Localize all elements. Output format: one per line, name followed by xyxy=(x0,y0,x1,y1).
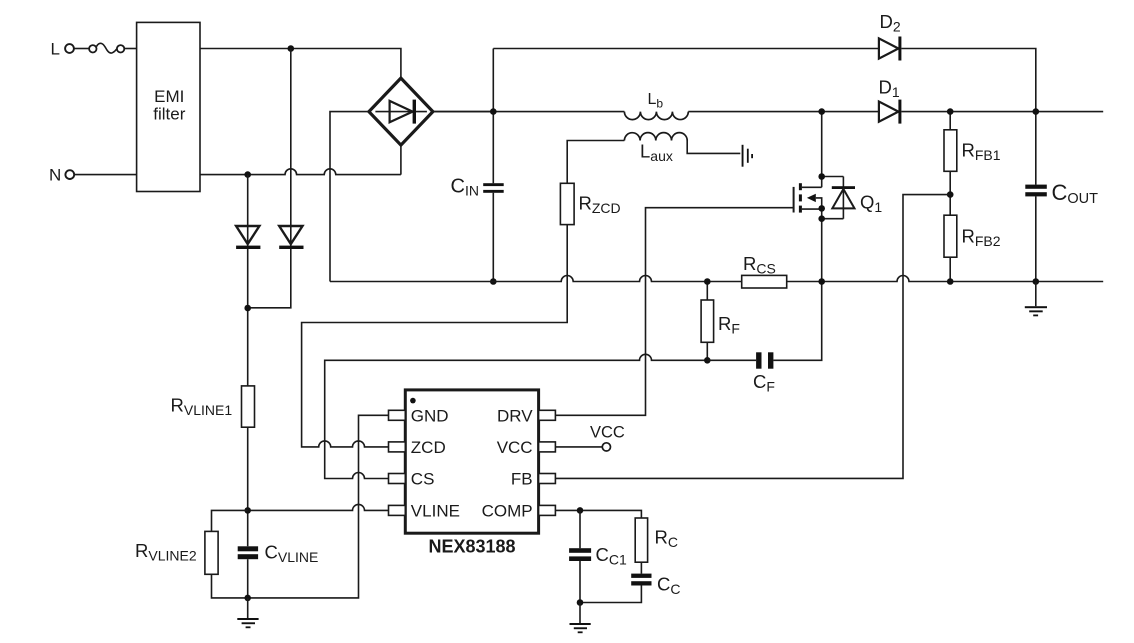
wire GND trace to main ground xyxy=(248,415,389,598)
pin stub COMP xyxy=(539,505,556,515)
diode D2 xyxy=(879,11,902,61)
wire bridge left corner to rail xyxy=(330,112,369,282)
wire fuse to EMI filter xyxy=(124,48,136,50)
pin stub VCC xyxy=(539,442,556,452)
svg-text:VCC: VCC xyxy=(590,423,625,441)
resistor RVLINE1 xyxy=(171,386,255,427)
pin stub VLINE xyxy=(389,505,406,515)
svg-text:RZCD: RZCD xyxy=(579,193,621,217)
svg-text:RF: RF xyxy=(718,313,740,337)
svg-text:RFB1: RFB1 xyxy=(962,140,1001,164)
junction comp ground node xyxy=(577,599,584,606)
wire N-line sense diode branch xyxy=(247,175,249,547)
svg-text:CC1: CC1 xyxy=(596,544,627,568)
junction Q1 source on rail xyxy=(818,278,825,285)
svg-text:CS: CS xyxy=(411,470,435,489)
wire return rail (hops at x567.2, x645.5, x903) xyxy=(330,276,1103,282)
junction sense diodes xyxy=(244,305,251,312)
junction on N line xyxy=(244,171,251,178)
svg-text:VCC: VCC xyxy=(497,438,533,457)
svg-text:L: L xyxy=(51,40,60,59)
wire L terminal to fuse xyxy=(74,48,89,50)
wire DRV to Q1 gate xyxy=(555,208,793,416)
wire CF right to source node xyxy=(773,282,821,361)
svg-text:RFB2: RFB2 xyxy=(962,226,1001,250)
svg-text:VLINE: VLINE xyxy=(411,501,460,520)
pin stub DRV xyxy=(539,410,556,420)
pin stub CS xyxy=(389,474,406,484)
junction RFB2 bottom xyxy=(947,278,954,285)
svg-text:Q1: Q1 xyxy=(860,192,882,216)
terminal VCC xyxy=(590,423,625,451)
svg-text:CIN: CIN xyxy=(451,176,479,199)
op-amp-ic U1 NEX83188 xyxy=(405,390,538,557)
svg-text:D2: D2 xyxy=(880,11,901,35)
wire bridge right corner to CIN node xyxy=(433,111,493,113)
svg-text:RVLINE2: RVLINE2 xyxy=(135,540,197,564)
svg-text:CF: CF xyxy=(753,371,775,395)
junction bottom VLINE node xyxy=(244,595,251,602)
resistor RCS xyxy=(742,253,787,288)
svg-text:N: N xyxy=(49,166,61,185)
svg-text:COUT: COUT xyxy=(1052,180,1099,207)
junction COUT top xyxy=(1033,108,1040,115)
inductor Laux xyxy=(624,133,687,164)
terminal N xyxy=(49,166,74,185)
wire N line from EMI to bridge bottom (hops at x290.8 and x330) xyxy=(200,145,401,175)
capacitor COUT xyxy=(1025,112,1098,282)
capacitor CIN xyxy=(451,112,504,282)
diode D1 xyxy=(879,77,902,124)
svg-text:CVLINE: CVLINE xyxy=(265,542,319,566)
wire Laux left lead to RZCD xyxy=(567,141,624,184)
svg-text:DRV: DRV xyxy=(497,406,533,425)
svg-text:Lb: Lb xyxy=(648,91,664,111)
wire main rectified line xyxy=(433,111,1103,113)
wire L-line sense diode branch xyxy=(248,49,291,308)
wire VLINE trace (hop at x358.5) xyxy=(248,504,389,510)
resistor RC xyxy=(635,518,678,562)
svg-text:D1: D1 xyxy=(879,77,900,101)
junction FB node xyxy=(947,191,954,198)
EMI filter block xyxy=(137,22,200,191)
ground (aux, right-pointing) xyxy=(742,145,753,167)
svg-text:FB: FB xyxy=(511,470,533,489)
junction RFB1 top xyxy=(947,108,954,115)
fuse F1 xyxy=(89,43,124,53)
pin stub GND xyxy=(389,410,406,420)
svg-text:RVLINE1: RVLINE1 xyxy=(171,395,233,419)
svg-text:EMI: EMI xyxy=(154,87,184,106)
junction COUT bottom xyxy=(1033,278,1040,285)
svg-text:GND: GND xyxy=(411,406,449,425)
capacitor CC xyxy=(580,562,681,602)
bridge rectifier BR1 xyxy=(369,78,433,145)
ground (output) xyxy=(1025,282,1047,317)
svg-text:NEX83188: NEX83188 xyxy=(428,537,515,557)
wire FB trace xyxy=(555,195,950,479)
terminal L xyxy=(51,40,74,59)
svg-text:ZCD: ZCD xyxy=(411,438,446,457)
resistor RF xyxy=(701,282,740,361)
junction Q1 drain on main line xyxy=(818,108,825,115)
inductor Lb xyxy=(624,91,688,120)
pin stub ZCD xyxy=(389,442,406,452)
svg-text:COMP: COMP xyxy=(482,501,533,520)
resistor RVLINE2 xyxy=(135,510,248,598)
pin stub FB xyxy=(539,474,556,484)
wire ZCD trace (hops at x324.7, x358.5) xyxy=(302,225,568,447)
ground (compensation) xyxy=(570,603,591,634)
wire N terminal to EMI filter xyxy=(74,174,137,176)
resistor RFB1 xyxy=(944,112,1001,195)
wire VCC pin xyxy=(555,446,602,448)
svg-text:filter: filter xyxy=(153,105,185,124)
resistor RFB2 xyxy=(944,195,1001,282)
junction RF top xyxy=(704,278,711,285)
wire CS trace from RF node (hop at x645.5 and x358.5) xyxy=(325,354,708,478)
junction CIN bottom xyxy=(490,278,497,285)
svg-text:Laux: Laux xyxy=(640,141,673,165)
junction node VLINE xyxy=(244,507,251,514)
capacitor CC1 xyxy=(569,510,627,602)
wire COMP node xyxy=(555,510,641,518)
resistor RZCD xyxy=(560,183,620,224)
capacitor CF xyxy=(707,352,775,394)
wire D2 bypass line xyxy=(493,49,1036,112)
diode DL (from L line) xyxy=(279,226,303,249)
svg-text:CC: CC xyxy=(657,574,681,598)
wire Laux right lead to aux ground xyxy=(687,141,740,154)
svg-text:RC: RC xyxy=(655,527,679,551)
capacitor CVLINE xyxy=(238,542,319,598)
svg-text:RCS: RCS xyxy=(743,253,776,277)
junction COMP xyxy=(577,507,584,514)
junction RF bottom xyxy=(704,357,711,364)
junction on L line xyxy=(288,45,295,52)
diode DN (from N line) xyxy=(236,226,260,249)
wire L line from EMI to bridge top xyxy=(200,49,401,79)
junction CIN top xyxy=(490,108,497,115)
ground (main sense) xyxy=(237,598,258,628)
transistor Q1 xyxy=(794,112,883,282)
